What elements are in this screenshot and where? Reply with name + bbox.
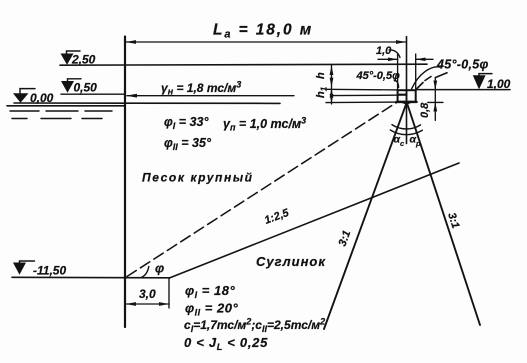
level +0,50 line right part bbox=[333, 94, 407, 97]
svg-text:0 < JL < 0,25: 0 < JL < 0,25 bbox=[184, 335, 268, 352]
water dash row 2 bbox=[12, 118, 102, 120]
leader 45-0,5phi right bbox=[412, 67, 441, 89]
svg-text:45°-0,5φ: 45°-0,5φ bbox=[356, 70, 401, 82]
wall vertical line bbox=[124, 37, 126, 328]
level line -11,50 bbox=[12, 276, 170, 279]
svg-text:cI=1,7тс/м2;cII=2,5тс/м2: cI=1,7тс/м2;cII=2,5тс/м2 bbox=[184, 317, 325, 335]
leader 1,0 bbox=[389, 50, 400, 58]
alpha arcs bbox=[392, 125, 421, 129]
level line +2,50 bbox=[60, 64, 427, 65]
phi angle arc bbox=[141, 267, 149, 278]
svg-text:φI = 33°: φI = 33° bbox=[164, 115, 209, 131]
dashed 45 line upper right bbox=[417, 73, 448, 89]
cap bottom extension line left bbox=[326, 101, 398, 104]
dimension 3,0 extension line bbox=[168, 278, 170, 308]
svg-text:1,00: 1,00 bbox=[487, 77, 511, 91]
level line +1,00 right bbox=[416, 89, 510, 91]
svg-text:γп = 1,0 тс/м3: γп = 1,0 тс/м3 bbox=[223, 116, 306, 133]
dimension h h1 bbox=[331, 65, 333, 104]
left pile leg 3:1 bbox=[324, 103, 407, 329]
level mark -11,50 symbol bbox=[20, 261, 35, 263]
svg-text:Песок крупный: Песок крупный bbox=[142, 171, 254, 185]
pile cap bbox=[398, 90, 416, 102]
svg-text:45°-0,5φ: 45°-0,5φ bbox=[436, 58, 489, 72]
level mark 1,00 symbol bbox=[479, 74, 492, 76]
svg-text:0,8: 0,8 bbox=[419, 102, 431, 118]
dimension 1,0 extension lines bbox=[397, 54, 399, 90]
svg-text:γн = 1,8 тс/м3: γн = 1,8 тс/м3 bbox=[161, 80, 241, 97]
level mark 2,50 symbol bbox=[67, 51, 81, 54]
cap top extension line bbox=[326, 88, 398, 91]
dimension La 18,0 m bbox=[126, 41, 406, 43]
dimension 3,0 bbox=[126, 303, 169, 305]
level mark 0,50 symbol bbox=[68, 79, 82, 81]
water dash row 1 bbox=[10, 110, 112, 112]
level line +0,50 left of wall bbox=[61, 93, 125, 95]
slope line 1:2,5 bbox=[170, 163, 459, 278]
gamma_n arrow line at +0,50 bbox=[127, 95, 294, 97]
right pile leg 3:1 bbox=[407, 103, 480, 325]
svg-text:-11,50: -11,50 bbox=[33, 264, 66, 278]
svg-text:h: h bbox=[315, 72, 327, 79]
svg-text:φ: φ bbox=[155, 261, 164, 276]
dimension 1,0 bbox=[378, 58, 398, 60]
svg-text:1,0: 1,0 bbox=[376, 45, 392, 57]
svg-text:φII = 20°: φII = 20° bbox=[185, 301, 238, 318]
leader 45-0,5phi left bbox=[394, 80, 399, 88]
svg-text:Суглинок: Суглинок bbox=[256, 254, 326, 269]
svg-text:φII = 35°: φII = 35° bbox=[164, 136, 212, 152]
svg-text:2,50: 2,50 bbox=[71, 53, 96, 67]
pile axis vertical bbox=[406, 37, 408, 144]
dimension 0,8 bbox=[434, 78, 436, 121]
svg-text:3,0: 3,0 bbox=[139, 287, 156, 301]
level line 0,00 bbox=[14, 102, 280, 104]
level mark 0,00 symbol bbox=[20, 89, 35, 94]
svg-text:0,50: 0,50 bbox=[74, 81, 98, 95]
svg-text:0,00: 0,00 bbox=[30, 91, 54, 105]
svg-text:φI = 18°: φI = 18° bbox=[185, 283, 235, 300]
water line second bbox=[7, 105, 124, 107]
dashed slip line phi bbox=[127, 102, 398, 277]
